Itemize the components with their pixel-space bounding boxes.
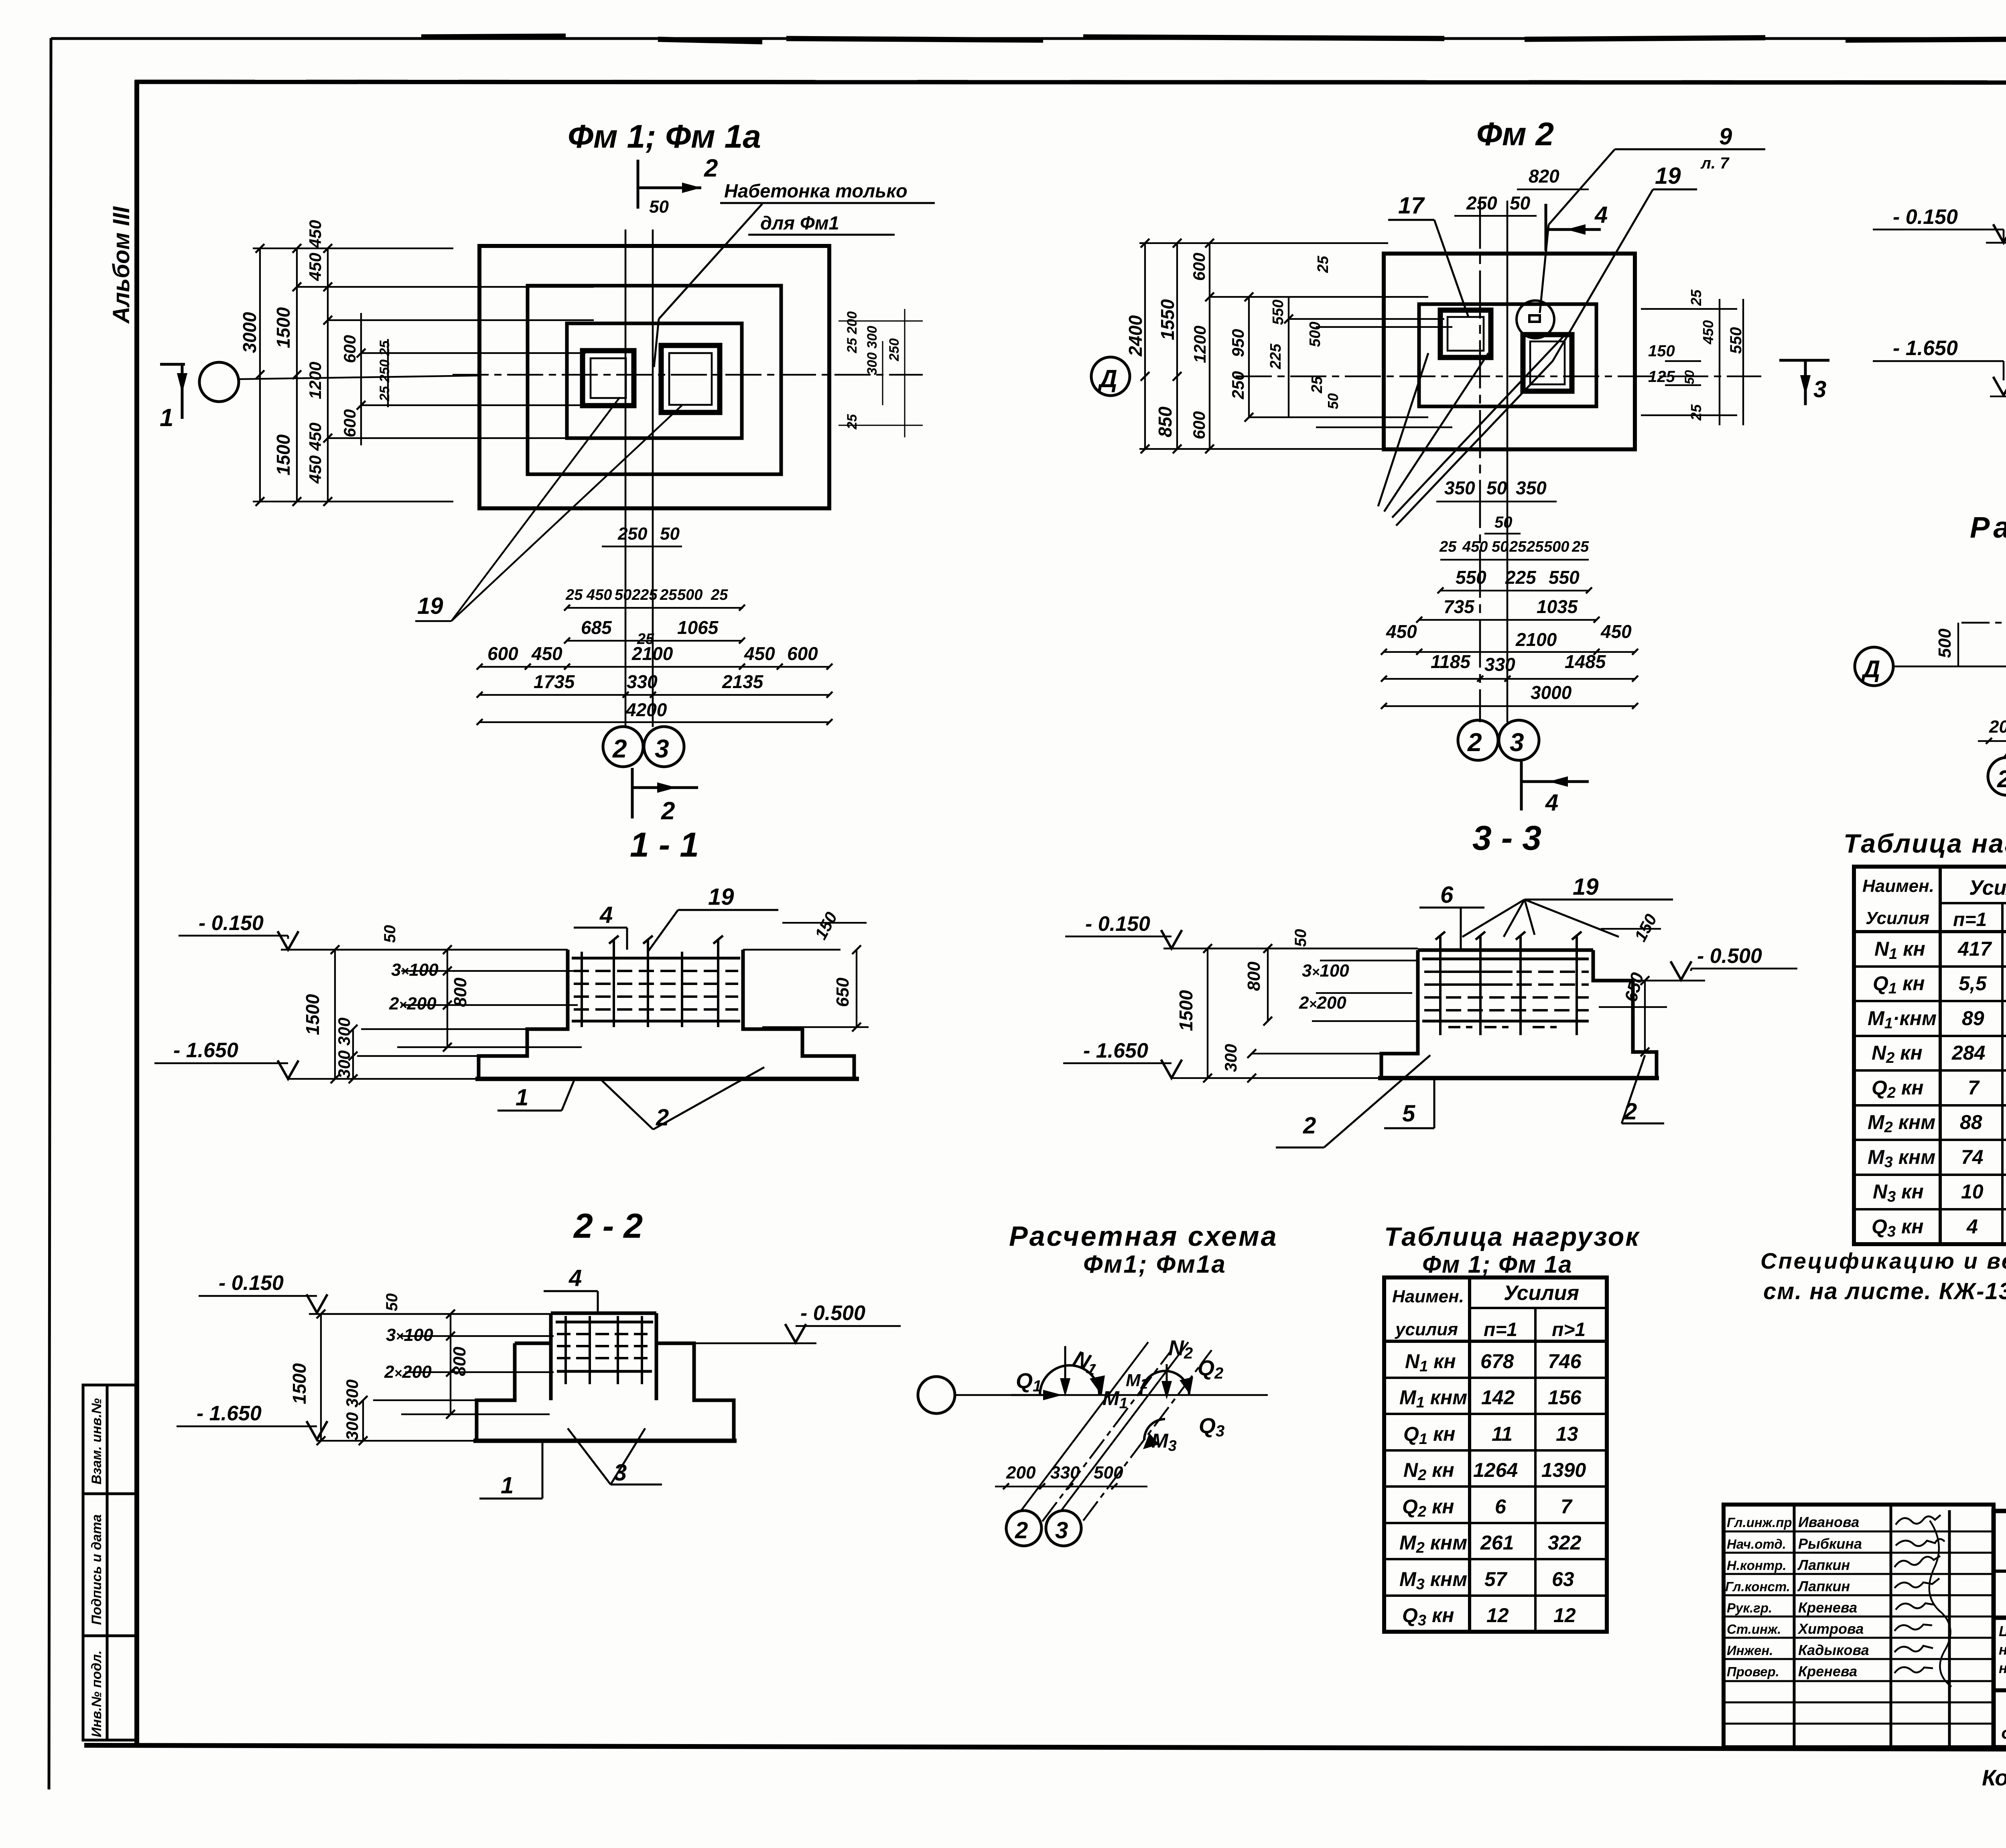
svg-text:820: 820 (1529, 166, 1559, 187)
svg-text:50: 50 (615, 587, 631, 603)
svg-text:417: 417 (1957, 938, 1992, 960)
svg-text:322: 322 (1548, 1531, 1582, 1554)
upper step slab FM2 (1419, 304, 1596, 406)
dim row 450 2100 450 FM2 (1386, 621, 1632, 650)
svg-text:19: 19 (708, 884, 734, 910)
svg-text:1500: 1500 (273, 434, 294, 475)
svg-text:Фм 1; Фм 1а: Фм 1; Фм 1а (1422, 1251, 1573, 1278)
ground line (281, 949, 568, 951)
section mark 1 left (160, 363, 185, 419)
svg-text:19: 19 (1573, 874, 1599, 900)
svg-text:500: 500 (677, 587, 703, 603)
svg-text:284: 284 (1951, 1042, 1985, 1064)
axis line horizontal (1893, 666, 2006, 668)
axis line (955, 1394, 1268, 1396)
dim 1500 vertical (1990, 243, 2006, 396)
svg-text:650: 650 (833, 977, 853, 1007)
left dims 1-1 (288, 950, 586, 1079)
axis 2 vertical FM2 (1479, 201, 1481, 722)
svg-text:N3 кн: N3 кн (1873, 1180, 1924, 1205)
table FM1 grid (1384, 1277, 1607, 1632)
svg-text:2: 2 (704, 154, 718, 182)
svg-text:Наимен.: Наимен. (1862, 876, 1934, 896)
svg-text:Инжен.: Инжен. (1727, 1643, 1773, 1658)
svg-text:5: 5 (1402, 1101, 1415, 1127)
svg-text:2×200: 2×200 (1299, 993, 1346, 1013)
axis circle 2 schema FM1 (1006, 1511, 1042, 1546)
svg-text:330: 330 (1484, 654, 1515, 675)
left dims 2-2 (317, 1314, 554, 1441)
anchor pocket left (583, 351, 634, 406)
svg-text:19: 19 (1655, 163, 1681, 189)
svg-text:6: 6 (1440, 882, 1454, 908)
svg-text:3: 3 (614, 1460, 627, 1486)
dim row 1185 330 1485 (1431, 651, 1606, 675)
rail diagonals (1021, 1342, 1212, 1521)
right big box (1994, 1511, 2006, 1747)
upper dashed line (1961, 622, 2006, 624)
section mark 4 top (1546, 204, 1601, 251)
svg-text:25: 25 (1572, 538, 1589, 555)
svg-text:330: 330 (627, 671, 658, 692)
svg-text:25: 25 (1315, 256, 1332, 273)
moment M1 arc (1040, 1365, 1099, 1395)
svg-text:3: 3 (1055, 1517, 1068, 1543)
svg-text:50: 50 (660, 524, 680, 544)
dimension tick slashes (256, 238, 2006, 1445)
footing outline 1-1 (475, 950, 859, 1079)
svg-text:Фм 1; Фм 1а: Фм 1; Фм 1а (568, 118, 761, 155)
title block main grid (1724, 1505, 2006, 1747)
svg-text:4200: 4200 (625, 699, 667, 720)
table FM2 rows (1868, 938, 2006, 1240)
left dim lines FM2 (1139, 243, 1452, 449)
rebar mesh 2-2 (556, 1316, 653, 1384)
axis circle left (918, 1377, 955, 1413)
svg-text:3: 3 (1813, 376, 1826, 402)
svg-text:- 1.650: - 1.650 (1083, 1039, 1148, 1062)
axis circle 2 schema FM2 (1988, 757, 2006, 795)
left axis circle 1 (199, 362, 239, 402)
svg-text:12: 12 (1486, 1604, 1509, 1627)
svg-text:600: 600 (340, 409, 359, 437)
svg-text:М2 кнм: М2 кнм (1399, 1531, 1467, 1556)
svg-text:10: 10 (1961, 1180, 1984, 1203)
svg-text:1500: 1500 (273, 307, 294, 348)
axis circle D (1091, 357, 1130, 396)
svg-text:Рук.гр.: Рук.гр. (1727, 1600, 1772, 1615)
svg-text:Гл.инж.пр: Гл.инж.пр (1727, 1515, 1792, 1530)
svg-text:261: 261 (1480, 1531, 1514, 1554)
svg-text:1500: 1500 (2003, 284, 2006, 325)
svg-text:25: 25 (565, 587, 583, 603)
svg-text:Q3 кн: Q3 кн (1402, 1604, 1454, 1629)
plan FM2 rectangles (1384, 254, 1635, 449)
svg-text:Гл.конст.: Гл.конст. (1725, 1579, 1790, 1594)
svg-text:4: 4 (569, 1265, 582, 1291)
dim ticks plan FM1 (477, 605, 832, 725)
svg-text:6: 6 (1495, 1495, 1507, 1518)
svg-text:142: 142 (1481, 1386, 1515, 1409)
dim row 550 225 550 FM2 (1456, 567, 1580, 588)
svg-text:1500: 1500 (1176, 990, 1196, 1031)
anchor circle FM2 (1517, 301, 1554, 338)
svg-text:Провер.: Провер. (1727, 1664, 1779, 1679)
leader from note to slab center (659, 204, 762, 319)
svg-text:2100: 2100 (1515, 629, 1557, 650)
svg-text:11: 11 (1492, 1423, 1513, 1445)
svg-text:Кренева: Кренева (1798, 1663, 1857, 1679)
section mark 2 bottom (632, 768, 698, 818)
svg-text:3×100: 3×100 (386, 1325, 433, 1345)
svg-text:1735: 1735 (534, 671, 575, 692)
svg-text:1065: 1065 (677, 617, 719, 638)
svg-text:1035: 1035 (1537, 596, 1578, 617)
svg-text:1 - 1: 1 - 1 (630, 826, 699, 864)
svg-text:89: 89 (1962, 1007, 1984, 1030)
svg-text:250: 250 (1228, 371, 1247, 400)
svg-text:Инв.№ подл.: Инв.№ подл. (89, 1650, 104, 1737)
svg-text:2×200: 2×200 (384, 1362, 432, 1382)
svg-text:12: 12 (1553, 1604, 1576, 1627)
right dims 3-3 (1599, 929, 1667, 1052)
svg-text:17: 17 (1398, 193, 1425, 219)
svg-text:1550: 1550 (1157, 299, 1178, 340)
section mark 2 top (638, 160, 701, 209)
svg-text:550: 550 (1549, 567, 1580, 588)
dim ticks FM2 (1381, 587, 1638, 709)
svg-text:450 450: 450 450 (306, 422, 325, 484)
svg-text:350: 350 (1444, 477, 1475, 498)
svg-text:- 0.500: - 0.500 (1697, 944, 1762, 968)
axis circle D schema (1855, 647, 1893, 686)
svg-text:Хитрова: Хитрова (1797, 1621, 1864, 1637)
svg-text:63: 63 (1552, 1568, 1574, 1590)
svg-text:88: 88 (1960, 1111, 1982, 1133)
svg-text:ной оснастки и инвентаря, мощ-: ной оснастки и инвентаря, мощ- (1999, 1641, 2006, 1658)
svg-text:800: 800 (1244, 961, 1264, 991)
svg-text:1485: 1485 (1565, 651, 1606, 672)
svg-text:1200: 1200 (1190, 326, 1209, 363)
svg-text:450: 450 (744, 643, 775, 664)
svg-text:М3 кнм: М3 кнм (1399, 1568, 1467, 1593)
svg-text:685: 685 (581, 617, 612, 638)
dim row 25 450 50 25 25 500 25 FM2 (1439, 538, 1589, 555)
svg-text:678: 678 (1480, 1350, 1514, 1373)
svg-text:п=1: п=1 (1953, 909, 1987, 930)
svg-text:250: 250 (617, 524, 648, 544)
ground line left (1986, 242, 2006, 244)
svg-text:450: 450 (586, 587, 612, 603)
ground line (1163, 948, 1418, 950)
svg-text:50: 50 (381, 925, 399, 943)
svg-text:Q3 кн: Q3 кн (1872, 1215, 1923, 1240)
svg-text:330: 330 (1050, 1463, 1080, 1482)
axis circle 3 schema FM1 (1046, 1511, 1081, 1546)
left stamp strip (83, 1385, 138, 1740)
svg-text:2: 2 (1303, 1113, 1316, 1139)
svg-text:1390: 1390 (1541, 1459, 1586, 1481)
svg-text:Кадыкова: Кадыкова (1798, 1642, 1869, 1658)
moment M3 (1144, 1419, 1165, 1440)
axis circle 2 FM2 (1458, 720, 1498, 760)
svg-text:225: 225 (631, 587, 658, 603)
svg-text:25: 25 (1309, 376, 1326, 394)
svg-text:300 300: 300 300 (343, 1379, 361, 1440)
svg-text:850: 850 (1155, 406, 1176, 437)
second arc (1141, 1371, 1189, 1395)
svg-text:1500: 1500 (289, 1363, 310, 1404)
svg-text:2: 2 (1997, 766, 2006, 792)
dim row 1735 330 2135 (534, 671, 764, 692)
svg-text:57: 57 (1484, 1568, 1508, 1590)
svg-text:300 300: 300 300 (335, 1017, 353, 1078)
svg-text:Д: Д (1861, 656, 1880, 682)
svg-text:7: 7 (1968, 1076, 1980, 1099)
dim 500 (1957, 623, 1959, 666)
footing outline 2-2 (473, 1313, 737, 1441)
svg-text:200: 200 (1006, 1463, 1036, 1482)
svg-text:М2 кнм: М2 кнм (1868, 1111, 1935, 1136)
svg-text:М3 кнм: М3 кнм (1868, 1146, 1935, 1171)
svg-text:Q2 кн: Q2 кн (1402, 1495, 1454, 1520)
svg-text:9: 9 (1719, 124, 1732, 150)
axis 2 vertical (625, 229, 627, 727)
svg-text:600: 600 (1190, 411, 1208, 439)
svg-text:25 250 25: 25 250 25 (377, 340, 392, 402)
svg-text:450: 450 (1462, 538, 1488, 555)
svg-text:Лапкин: Лапкин (1797, 1578, 1850, 1594)
section mark 3 right (1779, 360, 1829, 405)
svg-text:ностью 6,0тыс.тонн изделий в г: ностью 6,0тыс.тонн изделий в год (1999, 1660, 2006, 1676)
anchor pocket right FM2 (1523, 335, 1572, 391)
rail axis diagonals (2004, 572, 2006, 762)
svg-text:1500: 1500 (302, 994, 323, 1035)
svg-text:- 0.150: - 0.150 (219, 1271, 284, 1295)
svg-text:300: 300 (1221, 1044, 1240, 1072)
foundation outer slab (479, 246, 829, 508)
svg-text:2: 2 (612, 734, 627, 763)
middle step slab (528, 286, 781, 474)
svg-text:600: 600 (787, 643, 818, 664)
svg-text:800: 800 (451, 977, 470, 1007)
svg-text:25: 25 (845, 414, 860, 430)
svg-text:Копировал: Копировал (1982, 1765, 2006, 1790)
svg-text:Подпись и дата: Подпись и дата (89, 1514, 104, 1625)
svg-text:4: 4 (1594, 202, 1608, 228)
svg-text:200: 200 (1989, 717, 2006, 737)
svg-text:450 450: 450 450 (306, 220, 325, 281)
table FM1 rows (1399, 1350, 1586, 1629)
svg-text:74: 74 (1961, 1146, 1984, 1168)
svg-text:Усилия: Усилия (1969, 876, 2006, 900)
svg-text:500: 500 (1544, 538, 1569, 555)
right small dims of plan FM1 (839, 309, 923, 437)
svg-text:- 0.150: - 0.150 (199, 912, 264, 935)
svg-text:50: 50 (1510, 193, 1531, 213)
svg-text:Таблица нагрузок: Таблица нагрузок (1384, 1222, 1640, 1251)
svg-text:2×200: 2×200 (389, 994, 437, 1013)
svg-text:25: 25 (711, 587, 728, 603)
dim row 25 450 50 225 25 500 25 (565, 587, 728, 603)
axis 3 vertical (652, 229, 654, 727)
svg-text:Нач.отд.: Нач.отд. (1727, 1537, 1786, 1552)
svg-text:1264: 1264 (1473, 1459, 1518, 1481)
svg-text:600: 600 (340, 335, 359, 363)
svg-text:- 0.150: - 0.150 (1893, 205, 1958, 229)
svg-text:1185: 1185 (1431, 651, 1471, 672)
svg-text:п=1: п=1 (1484, 1319, 1517, 1340)
svg-text:600: 600 (487, 643, 518, 664)
svg-text:25 200: 25 200 (845, 311, 860, 353)
anchor pocket right (661, 345, 720, 412)
footing outline 3-3 (1378, 950, 1659, 1078)
svg-text:Q2 кн: Q2 кн (1872, 1076, 1923, 1101)
svg-text:Усилия: Усилия (1866, 908, 1929, 928)
svg-text:- 0.500: - 0.500 (800, 1302, 865, 1325)
svg-text:25: 25 (1509, 538, 1527, 555)
main drawing frame (134, 80, 139, 1744)
svg-text:25: 25 (1688, 404, 1704, 421)
top edge scan blotches (421, 36, 2006, 42)
svg-text:250: 250 (1466, 193, 1497, 213)
svg-text:25: 25 (1688, 289, 1704, 306)
left dims 3-3 (1172, 948, 1416, 1078)
anchor pocket left FM2 (1440, 310, 1491, 357)
svg-text:450: 450 (1386, 621, 1417, 642)
svg-text:4: 4 (599, 902, 613, 928)
svg-text:Рыбкина: Рыбкина (1798, 1535, 1862, 1552)
svg-text:Иванова: Иванова (1798, 1514, 1859, 1530)
svg-text:350: 350 (1516, 477, 1547, 498)
svg-text:3000: 3000 (1531, 682, 1572, 703)
svg-text:500: 500 (1307, 322, 1324, 347)
svg-text:М1 кнм: М1 кнм (1399, 1386, 1467, 1411)
svg-text:950: 950 (1228, 329, 1247, 357)
svg-text:50: 50 (649, 197, 669, 217)
svg-text:150: 150 (1648, 342, 1675, 360)
section mark 4 bottom (1521, 762, 1589, 810)
plan rectangles (479, 246, 829, 508)
svg-text:1200: 1200 (306, 362, 325, 399)
dim row 350 50 350 (1444, 477, 1547, 498)
svg-text:2: 2 (1015, 1517, 1028, 1543)
signature table (1724, 1505, 1994, 1747)
outer sheet border top (51, 37, 2006, 40)
ground line (309, 1313, 551, 1315)
rebar mesh 1-1 (572, 936, 740, 1027)
svg-text:600: 600 (1190, 253, 1208, 281)
svg-text:3: 3 (1510, 728, 1524, 757)
svg-text:N1 кн: N1 кн (1405, 1350, 1456, 1375)
svg-text:усилия: усилия (1395, 1320, 1458, 1339)
svg-text:Расчетная схема Фм2: Расчетная схема Фм2 (1970, 511, 2006, 544)
dim row 600 450 2100 450 600 (487, 643, 818, 664)
svg-text:25: 25 (1526, 538, 1544, 555)
svg-text:3000: 3000 (239, 312, 260, 353)
svg-text:см. на листе. КЖ-13.: см. на листе. КЖ-13. (1763, 1278, 2006, 1304)
svg-text:746: 746 (1548, 1350, 1582, 1373)
svg-text:25: 25 (1439, 538, 1457, 555)
svg-text:4: 4 (1545, 790, 1558, 816)
foundation slab FM2 (1384, 254, 1635, 449)
svg-text:2: 2 (661, 797, 675, 825)
svg-text:1: 1 (501, 1472, 514, 1499)
axis circle 3 (644, 727, 684, 767)
svg-text:125: 125 (1648, 368, 1675, 386)
svg-text:735: 735 (1444, 596, 1475, 617)
rebar mesh 3-3 (1422, 932, 1589, 1035)
upper step slab (567, 323, 742, 438)
svg-text:19: 19 (417, 593, 443, 619)
svg-text:2100: 2100 (631, 643, 673, 664)
svg-text:Взам. инв.№: Взам. инв.№ (89, 1398, 104, 1484)
svg-text:2: 2 (1467, 728, 1482, 757)
svg-text:Кренева: Кренева (1798, 1599, 1857, 1616)
svg-text:1: 1 (160, 404, 173, 432)
outer sheet border left (49, 38, 51, 1789)
svg-text:4: 4 (1966, 1215, 1978, 1238)
svg-text:Ст.инж.: Ст.инж. (1727, 1622, 1781, 1637)
svg-text:550: 550 (1270, 300, 1287, 325)
svg-text:500: 500 (1094, 1463, 1123, 1482)
svg-text:N2 кн: N2 кн (1403, 1459, 1454, 1484)
svg-text:Расчетная схема: Расчетная схема (1009, 1220, 1278, 1252)
svg-text:М1·кнм: М1·кнм (1868, 1007, 1937, 1032)
sig table roles (1725, 1514, 1869, 1679)
svg-text:Фм 2: Фм 2 (1476, 116, 1554, 152)
svg-text:25: 25 (660, 587, 677, 603)
svg-text:225: 225 (1505, 567, 1537, 588)
svg-text:550: 550 (1456, 567, 1486, 588)
svg-text:550: 550 (1727, 327, 1745, 354)
svg-text:2400: 2400 (1125, 315, 1146, 357)
right dims 1-1 (762, 923, 869, 1027)
svg-text:3×100: 3×100 (1302, 961, 1349, 981)
svg-text:450: 450 (1700, 320, 1716, 345)
svg-text:50: 50 (1682, 370, 1697, 384)
svg-text:Усилия: Усилия (1504, 1281, 1579, 1305)
svg-text:- 1.650: - 1.650 (173, 1039, 238, 1062)
svg-text:- 1.650: - 1.650 (197, 1402, 262, 1425)
axis 3 vertical FM2 (1507, 201, 1509, 722)
svg-text:Д: Д (1097, 365, 1117, 393)
svg-text:225: 225 (1267, 343, 1284, 370)
svg-text:50: 50 (1292, 929, 1310, 947)
signatures squiggles (1894, 1515, 1951, 1687)
svg-text:2 - 2: 2 - 2 (573, 1207, 643, 1245)
svg-text:Лапкин: Лапкин (1797, 1557, 1850, 1573)
svg-text:для Фм1: для Фм1 (760, 212, 839, 234)
svg-text:Фундаменты Фм1÷Фм2: Фундаменты Фм1÷Фм2 (2001, 1725, 2006, 1744)
svg-text:Таблица нагрузок Фм2: Таблица нагрузок Фм2 (1844, 829, 2006, 858)
svg-text:5,5: 5,5 (1959, 972, 1987, 995)
svg-text:Фм1; Фм1а: Фм1; Фм1а (1083, 1251, 1226, 1278)
svg-text:50: 50 (1492, 538, 1509, 555)
svg-text:3: 3 (655, 734, 669, 763)
svg-text:Н.контр.: Н.контр. (1727, 1558, 1786, 1573)
centerline horizontal (453, 374, 923, 376)
svg-text:2135: 2135 (722, 671, 764, 692)
svg-text:250: 250 (887, 338, 902, 361)
svg-text:50: 50 (1325, 393, 1341, 409)
svg-text:Альбом III: Альбом III (108, 206, 134, 324)
axis circle 2 (603, 727, 643, 767)
svg-text:3×100: 3×100 (391, 960, 439, 980)
bottom dim 200 330 500 (995, 1486, 1147, 1487)
right dim lines FM2 (1641, 299, 1743, 425)
svg-text:п>1: п>1 (1552, 1319, 1586, 1340)
